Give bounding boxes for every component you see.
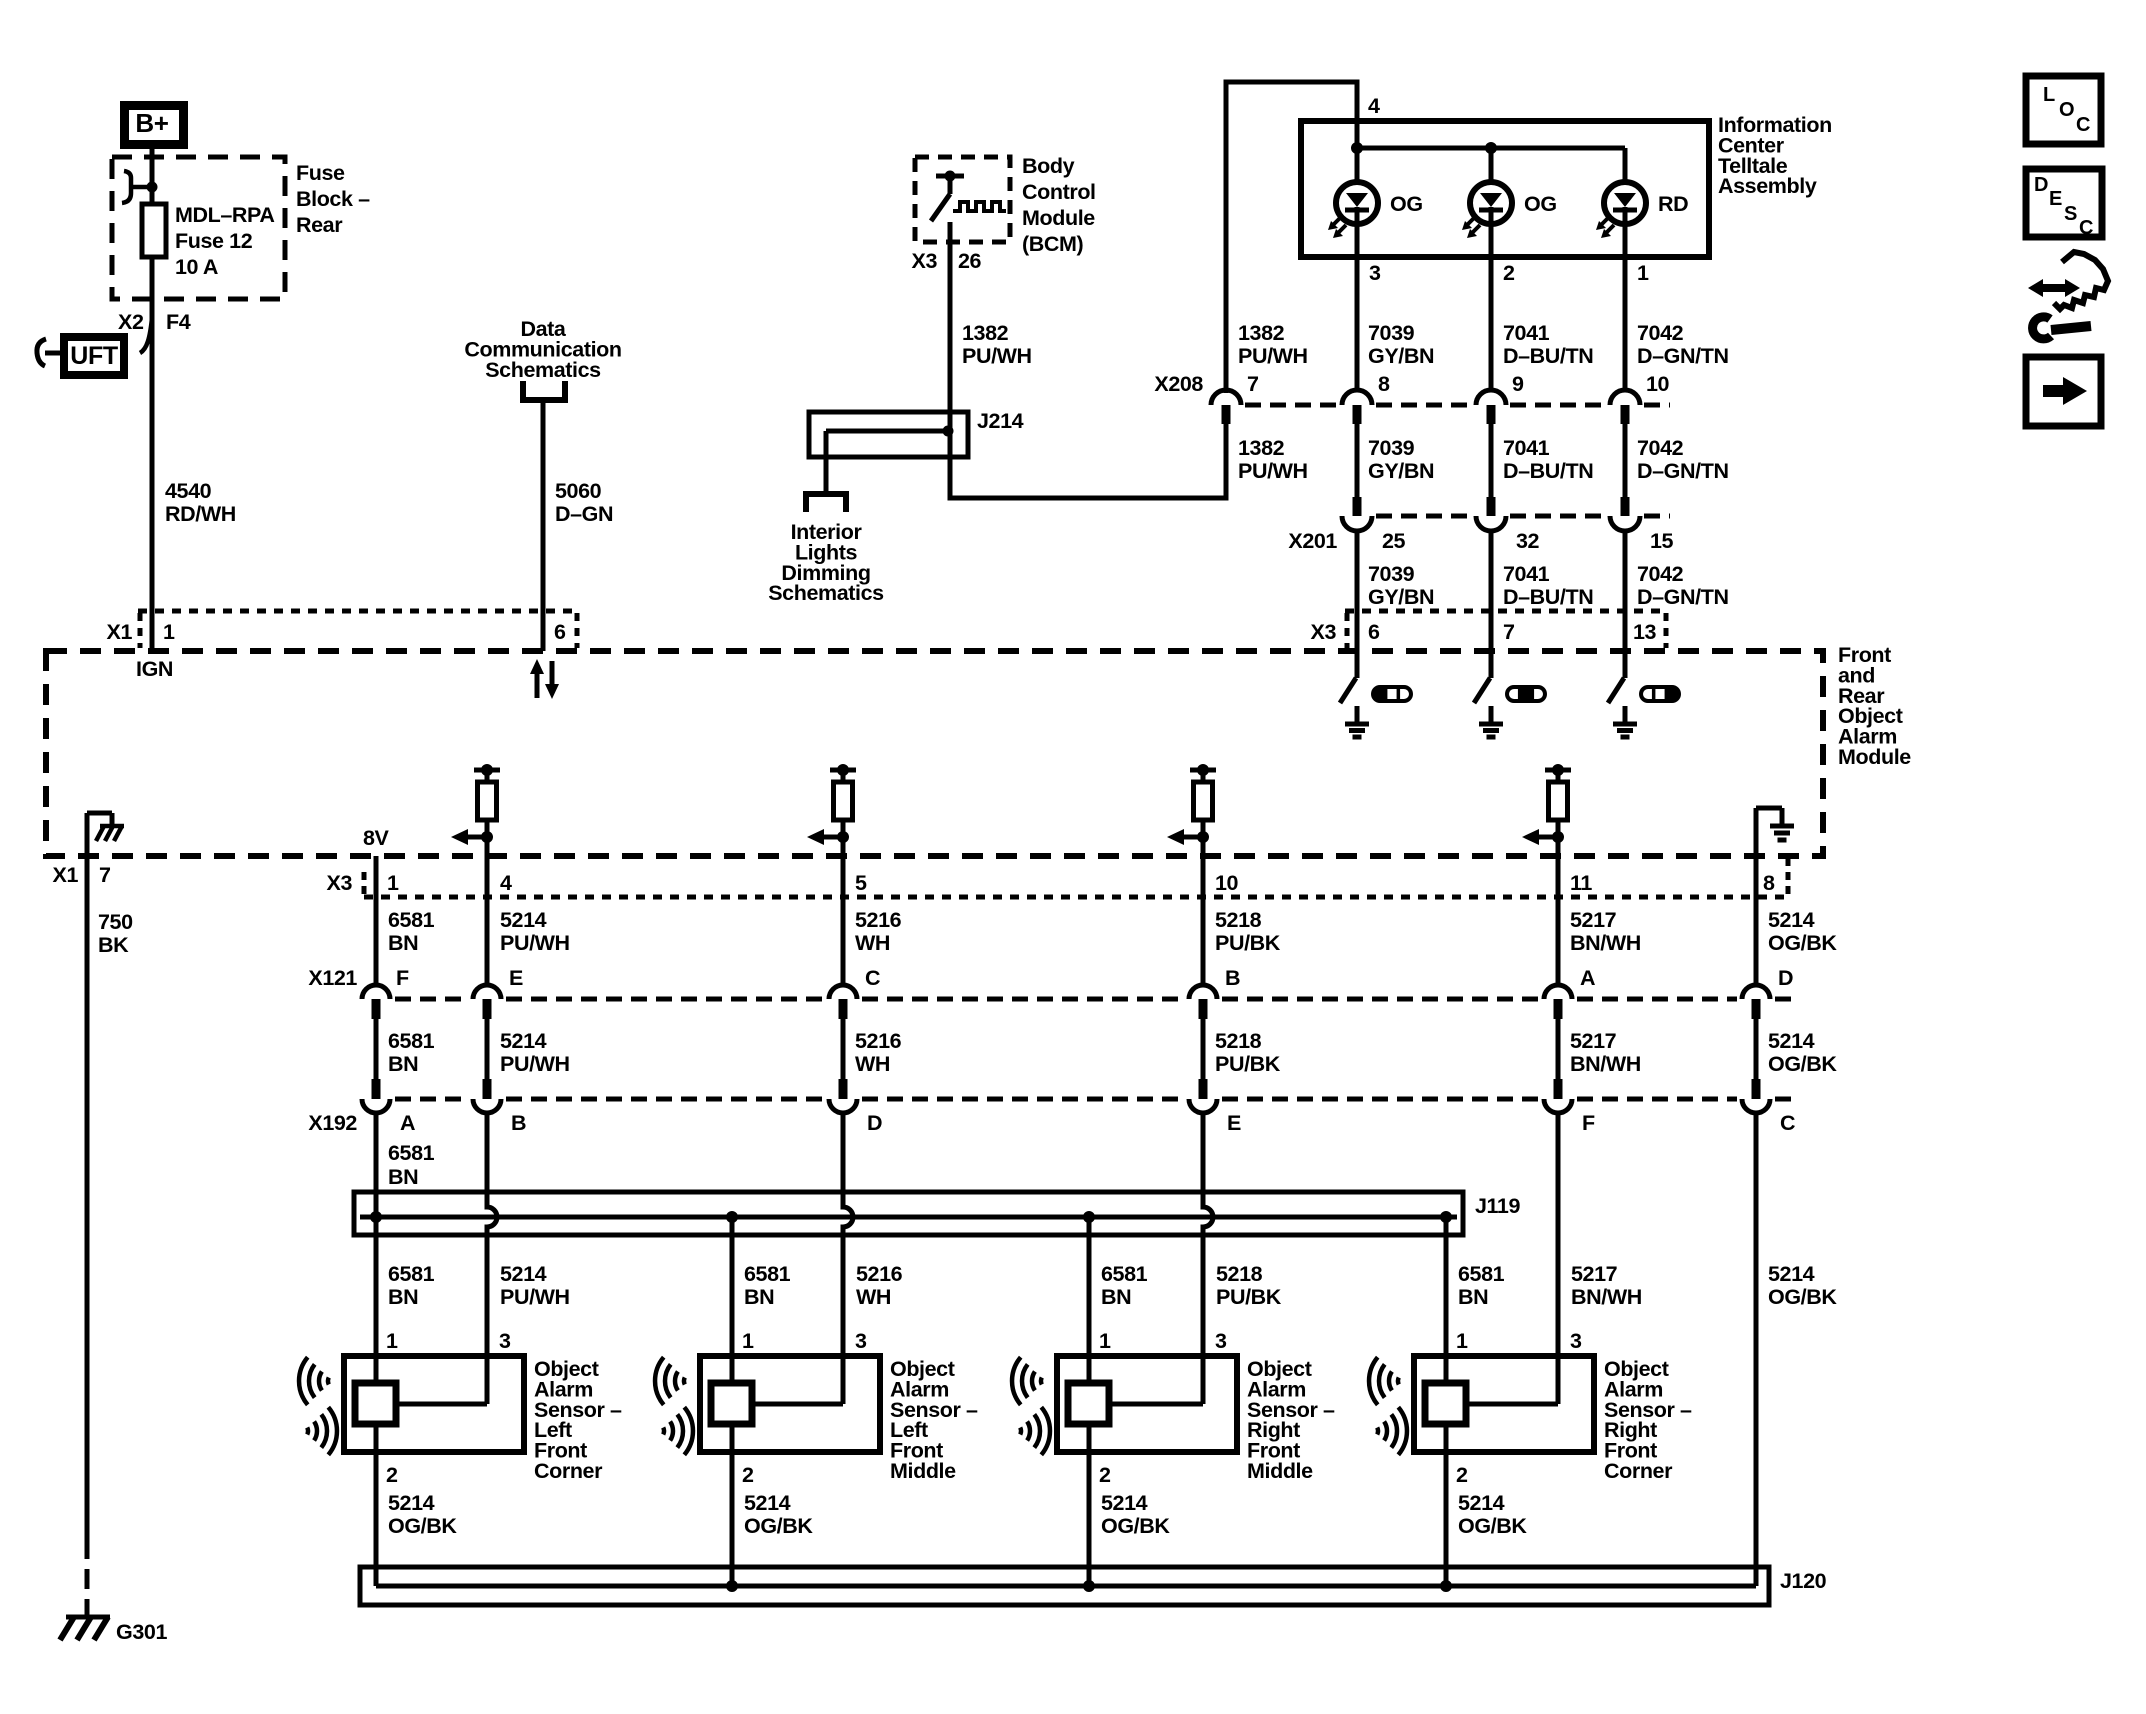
svg-text:11: 11: [1570, 871, 1592, 895]
svg-text:BN: BN: [388, 1052, 418, 1076]
svg-text:7039: 7039: [1368, 321, 1415, 345]
svg-text:Corner: Corner: [1604, 1459, 1673, 1483]
svg-text:3: 3: [1369, 261, 1381, 285]
svg-text:7039: 7039: [1368, 436, 1415, 460]
svg-text:7: 7: [1503, 620, 1515, 644]
svg-text:7042: 7042: [1637, 321, 1684, 345]
svg-text:15: 15: [1650, 529, 1674, 553]
svg-text:Schematics: Schematics: [768, 581, 884, 605]
svg-text:5218: 5218: [1215, 908, 1262, 932]
svg-text:C: C: [865, 966, 880, 990]
svg-text:F: F: [396, 966, 409, 990]
svg-text:7041: 7041: [1503, 562, 1550, 586]
svg-text:BN: BN: [744, 1285, 774, 1309]
svg-text:B: B: [511, 1111, 526, 1135]
svg-text:5217: 5217: [1570, 908, 1617, 932]
svg-text:J214: J214: [977, 409, 1024, 433]
svg-text:2: 2: [1099, 1463, 1111, 1487]
svg-text:750: 750: [98, 910, 133, 934]
svg-text:D–GN/TN: D–GN/TN: [1637, 459, 1729, 483]
svg-text:3: 3: [1215, 1329, 1227, 1353]
svg-text:1: 1: [742, 1329, 754, 1353]
svg-text:UFT: UFT: [70, 342, 118, 370]
svg-text:J119: J119: [1475, 1194, 1520, 1218]
svg-text:D–GN/TN: D–GN/TN: [1637, 585, 1729, 609]
svg-text:1: 1: [387, 871, 399, 895]
svg-text:IGN: IGN: [136, 657, 173, 681]
svg-text:Middle: Middle: [890, 1459, 956, 1483]
svg-text:C: C: [2076, 114, 2090, 136]
svg-text:7039: 7039: [1368, 562, 1415, 586]
svg-text:7041: 7041: [1503, 436, 1550, 460]
svg-text:5214: 5214: [1768, 1262, 1815, 1286]
svg-text:A: A: [1580, 966, 1595, 990]
svg-text:5214: 5214: [500, 1029, 547, 1053]
svg-text:X192: X192: [308, 1111, 357, 1135]
svg-text:GY/BN: GY/BN: [1368, 344, 1434, 368]
svg-text:6581: 6581: [388, 1262, 435, 1286]
svg-text:B+: B+: [135, 108, 168, 138]
svg-text:BN/WH: BN/WH: [1571, 1285, 1642, 1309]
svg-text:1382: 1382: [1238, 436, 1285, 460]
svg-text:BN: BN: [388, 1165, 418, 1189]
svg-text:10 A: 10 A: [175, 255, 218, 279]
svg-text:1: 1: [386, 1329, 398, 1353]
svg-text:7: 7: [99, 863, 111, 887]
svg-text:6581: 6581: [388, 1141, 435, 1165]
svg-text:Fuse: Fuse: [296, 161, 345, 185]
svg-text:4540: 4540: [165, 479, 212, 503]
svg-text:1: 1: [163, 620, 175, 644]
svg-text:Body: Body: [1022, 154, 1075, 178]
svg-text:E: E: [1227, 1111, 1241, 1135]
svg-text:10: 10: [1646, 372, 1670, 396]
svg-text:5214: 5214: [1458, 1491, 1505, 1515]
svg-text:2: 2: [386, 1463, 398, 1487]
svg-text:2: 2: [1503, 261, 1515, 285]
svg-text:BN/WH: BN/WH: [1570, 1052, 1641, 1076]
svg-text:GY/BN: GY/BN: [1368, 585, 1434, 609]
svg-text:Assembly: Assembly: [1718, 174, 1817, 198]
svg-text:5218: 5218: [1215, 1029, 1262, 1053]
svg-text:6581: 6581: [388, 908, 435, 932]
svg-text:X1: X1: [53, 863, 79, 887]
svg-text:5214: 5214: [388, 1491, 435, 1515]
svg-text:5216: 5216: [856, 1262, 903, 1286]
svg-text:PU/BK: PU/BK: [1215, 1052, 1281, 1076]
svg-text:D: D: [1778, 966, 1793, 990]
svg-text:7042: 7042: [1637, 562, 1684, 586]
svg-text:1382: 1382: [962, 321, 1009, 345]
svg-text:D: D: [867, 1111, 882, 1135]
svg-text:X121: X121: [308, 966, 357, 990]
svg-text:8: 8: [1763, 871, 1775, 895]
svg-text:PU/WH: PU/WH: [962, 344, 1032, 368]
svg-text:GY/BN: GY/BN: [1368, 459, 1434, 483]
svg-text:C: C: [1780, 1111, 1795, 1135]
svg-text:OG/BK: OG/BK: [1768, 1285, 1837, 1309]
svg-text:PU/BK: PU/BK: [1215, 931, 1281, 955]
svg-text:OG/BK: OG/BK: [1458, 1514, 1527, 1538]
svg-text:6581: 6581: [388, 1029, 435, 1053]
svg-text:OG/BK: OG/BK: [744, 1514, 813, 1538]
svg-text:E: E: [2049, 188, 2062, 210]
svg-text:WH: WH: [856, 1285, 891, 1309]
svg-text:WH: WH: [855, 931, 890, 955]
svg-text:1: 1: [1099, 1329, 1111, 1353]
svg-text:X2: X2: [118, 310, 144, 334]
svg-text:5214: 5214: [1768, 1029, 1815, 1053]
svg-text:WH: WH: [855, 1052, 890, 1076]
svg-text:E: E: [509, 966, 523, 990]
svg-text:PU/WH: PU/WH: [500, 1285, 570, 1309]
svg-text:BK: BK: [98, 933, 129, 957]
svg-text:BN: BN: [1101, 1285, 1131, 1309]
svg-text:5214: 5214: [1101, 1491, 1148, 1515]
svg-text:1382: 1382: [1238, 321, 1285, 345]
svg-text:Rear: Rear: [296, 213, 343, 237]
svg-text:D–BU/TN: D–BU/TN: [1503, 459, 1593, 483]
svg-text:OG/BK: OG/BK: [1768, 931, 1837, 955]
svg-text:Schematics: Schematics: [485, 358, 601, 382]
svg-text:D–BU/TN: D–BU/TN: [1503, 344, 1593, 368]
svg-text:Module: Module: [1022, 206, 1095, 230]
svg-text:5216: 5216: [855, 908, 902, 932]
svg-text:Middle: Middle: [1247, 1459, 1313, 1483]
svg-text:OG: OG: [1390, 192, 1423, 216]
svg-text:8: 8: [1378, 372, 1390, 396]
svg-text:5214: 5214: [500, 1262, 547, 1286]
svg-text:5060: 5060: [555, 479, 602, 503]
svg-text:O: O: [2059, 99, 2074, 121]
svg-text:PU/WH: PU/WH: [500, 931, 570, 955]
svg-text:6: 6: [1368, 620, 1380, 644]
svg-text:C: C: [2079, 217, 2093, 239]
svg-text:5: 5: [855, 871, 867, 895]
svg-text:4: 4: [500, 871, 512, 895]
svg-text:J120: J120: [1780, 1569, 1827, 1593]
svg-text:10: 10: [1215, 871, 1239, 895]
svg-text:D–GN/TN: D–GN/TN: [1637, 344, 1729, 368]
svg-text:3: 3: [855, 1329, 867, 1353]
svg-text:F: F: [1582, 1111, 1595, 1135]
svg-text:BN: BN: [388, 931, 418, 955]
svg-text:32: 32: [1516, 529, 1540, 553]
svg-text:6581: 6581: [1101, 1262, 1148, 1286]
svg-text:4: 4: [1368, 94, 1380, 118]
svg-text:L: L: [2043, 84, 2055, 106]
svg-text:BN/WH: BN/WH: [1570, 931, 1641, 955]
svg-text:2: 2: [1456, 1463, 1468, 1487]
svg-text:D–GN: D–GN: [555, 502, 613, 526]
svg-text:PU/WH: PU/WH: [500, 1052, 570, 1076]
svg-text:6: 6: [554, 620, 566, 644]
svg-text:5214: 5214: [500, 908, 547, 932]
svg-text:7042: 7042: [1637, 436, 1684, 460]
svg-text:OG/BK: OG/BK: [1101, 1514, 1170, 1538]
svg-text:MDL–RPA: MDL–RPA: [175, 203, 275, 227]
svg-text:BN: BN: [1458, 1285, 1488, 1309]
svg-text:13: 13: [1633, 620, 1657, 644]
svg-text:OG/BK: OG/BK: [1768, 1052, 1837, 1076]
svg-text:5217: 5217: [1571, 1262, 1618, 1286]
svg-text:26: 26: [958, 249, 982, 273]
svg-text:Control: Control: [1022, 180, 1096, 204]
svg-text:5214: 5214: [744, 1491, 791, 1515]
svg-text:X3: X3: [1311, 620, 1337, 644]
svg-text:Module: Module: [1838, 745, 1911, 769]
svg-text:(BCM): (BCM): [1022, 232, 1084, 256]
svg-text:Corner: Corner: [534, 1459, 603, 1483]
svg-text:25: 25: [1382, 529, 1406, 553]
svg-text:5217: 5217: [1570, 1029, 1617, 1053]
svg-text:X3: X3: [327, 871, 353, 895]
svg-text:6581: 6581: [744, 1262, 791, 1286]
svg-text:RD/WH: RD/WH: [165, 502, 236, 526]
svg-text:OG: OG: [1524, 192, 1557, 216]
svg-text:2: 2: [742, 1463, 754, 1487]
svg-text:5214: 5214: [1768, 908, 1815, 932]
svg-text:X1: X1: [107, 620, 133, 644]
svg-text:5216: 5216: [855, 1029, 902, 1053]
svg-text:1: 1: [1637, 261, 1649, 285]
svg-text:B: B: [1225, 966, 1240, 990]
svg-text:3: 3: [499, 1329, 511, 1353]
svg-text:7041: 7041: [1503, 321, 1550, 345]
svg-text:PU/BK: PU/BK: [1216, 1285, 1282, 1309]
svg-text:RD: RD: [1658, 192, 1688, 216]
svg-text:F4: F4: [166, 310, 191, 334]
svg-text:D–BU/TN: D–BU/TN: [1503, 585, 1593, 609]
svg-text:PU/WH: PU/WH: [1238, 459, 1308, 483]
svg-text:6581: 6581: [1458, 1262, 1505, 1286]
svg-text:BN: BN: [388, 1285, 418, 1309]
svg-text:X201: X201: [1288, 529, 1337, 553]
svg-text:Fuse 12: Fuse 12: [175, 229, 253, 253]
svg-text:D: D: [2034, 174, 2048, 196]
svg-text:G301: G301: [116, 1620, 167, 1644]
svg-text:Block –: Block –: [296, 187, 370, 211]
svg-text:PU/WH: PU/WH: [1238, 344, 1308, 368]
svg-text:A: A: [400, 1111, 415, 1135]
svg-text:S: S: [2064, 203, 2077, 225]
svg-text:X3: X3: [912, 249, 938, 273]
svg-text:5218: 5218: [1216, 1262, 1263, 1286]
svg-text:9: 9: [1512, 372, 1524, 396]
svg-text:OG/BK: OG/BK: [388, 1514, 457, 1538]
svg-text:3: 3: [1570, 1329, 1582, 1353]
svg-text:1: 1: [1456, 1329, 1468, 1353]
svg-text:7: 7: [1247, 372, 1259, 396]
svg-text:X208: X208: [1154, 372, 1203, 396]
svg-text:8V: 8V: [363, 826, 390, 850]
